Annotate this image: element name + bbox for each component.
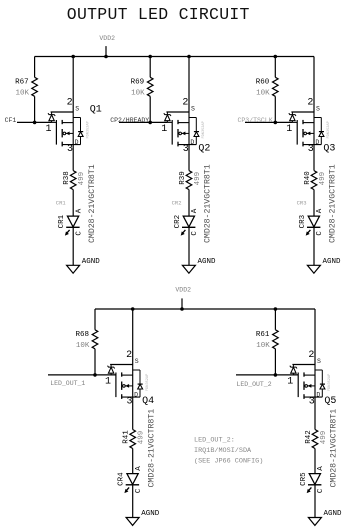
- wire: [48, 374, 116, 376]
- svg-text:R41: R41: [123, 430, 131, 444]
- transistor Q1: [48, 112, 83, 146]
- svg-text:D: D: [315, 139, 319, 146]
- svg-text:Q1: Q1: [90, 105, 102, 116]
- svg-text:R42: R42: [305, 430, 313, 444]
- svg-text:FDN352AP: FDN352AP: [86, 121, 90, 138]
- svg-text:R38: R38: [63, 171, 71, 185]
- svg-text:C: C: [317, 488, 325, 493]
- svg-text:CR2: CR2: [174, 215, 182, 229]
- svg-text:(SEE JP66 CONFIG): (SEE JP66 CONFIG): [194, 458, 263, 466]
- svg-text:VDD2: VDD2: [175, 286, 191, 293]
- svg-text:OUTPUT LED CIRCUIT: OUTPUT LED CIRCUIT: [67, 5, 250, 24]
- wire: [313, 227, 315, 265]
- wire: [72, 145, 74, 171]
- transistor Q5: [290, 365, 325, 399]
- svg-text:CR1: CR1: [56, 200, 67, 207]
- svg-text:Q2: Q2: [198, 143, 210, 154]
- svg-text:499: 499: [319, 172, 327, 186]
- wire: [72, 227, 74, 265]
- wire VDD2 rail (top): [35, 56, 314, 58]
- svg-text:499: 499: [320, 431, 328, 445]
- wire: [149, 96, 151, 122]
- resistor R39: [186, 171, 192, 190]
- svg-text:CP2/HREADY: CP2/HREADY: [110, 117, 149, 124]
- resistor R38: [70, 171, 76, 190]
- wire: [132, 397, 134, 429]
- resistor R60: [272, 77, 278, 96]
- svg-text:3: 3: [309, 397, 315, 408]
- wire: [274, 309, 276, 330]
- svg-text:S: S: [135, 358, 139, 365]
- svg-text:FDN352AP: FDN352AP: [146, 374, 150, 391]
- junction: [274, 307, 278, 311]
- junction: [104, 55, 108, 59]
- wire: [132, 309, 134, 365]
- svg-text:1: 1: [45, 124, 51, 135]
- svg-text:S: S: [317, 358, 321, 365]
- wire: [236, 374, 298, 376]
- svg-text:R39: R39: [179, 171, 187, 185]
- junction: [187, 55, 191, 59]
- resistor R40: [311, 171, 317, 190]
- svg-text:499: 499: [78, 172, 86, 186]
- wire: [188, 190, 190, 217]
- transistor Q2: [164, 112, 199, 146]
- resistor R69: [147, 77, 153, 96]
- svg-text:S: S: [191, 105, 195, 112]
- svg-text:1: 1: [161, 124, 167, 135]
- svg-text:R68: R68: [75, 331, 89, 339]
- ground AGND: [308, 510, 342, 525]
- svg-text:Q4: Q4: [142, 396, 154, 407]
- svg-text:AGND: AGND: [323, 258, 342, 266]
- svg-text:LED_OUT_1: LED_OUT_1: [50, 380, 85, 387]
- wire: [119, 121, 167, 123]
- ground AGND: [67, 258, 101, 273]
- svg-text:3: 3: [126, 397, 132, 408]
- svg-text:1: 1: [286, 124, 292, 135]
- svg-text:R67: R67: [15, 79, 29, 87]
- transistor Q3: [289, 112, 324, 146]
- wire: [188, 145, 190, 171]
- svg-text:CMD28-21VGCTR8T1: CMD28-21VGCTR8T1: [329, 164, 338, 243]
- svg-text:CMD28-21VGCTR8T1: CMD28-21VGCTR8T1: [88, 164, 97, 243]
- svg-text:CR1: CR1: [58, 214, 66, 228]
- junction: [148, 121, 152, 125]
- svg-text:2: 2: [308, 350, 314, 361]
- svg-text:CMD28-21VGCTR8T1: CMD28-21VGCTR8T1: [330, 409, 339, 488]
- wire: [274, 96, 276, 122]
- junction: [274, 121, 278, 125]
- wire: [132, 485, 134, 518]
- svg-text:3: 3: [183, 144, 189, 155]
- svg-text:CR3: CR3: [299, 214, 307, 228]
- svg-text:R61: R61: [256, 331, 270, 339]
- svg-text:R60: R60: [256, 79, 270, 87]
- svg-text:A: A: [75, 208, 83, 213]
- wire: [314, 485, 316, 518]
- svg-text:3: 3: [67, 144, 73, 155]
- resistor R68: [92, 330, 98, 349]
- svg-text:FDN352AP: FDN352AP: [327, 121, 331, 138]
- svg-text:D: D: [190, 139, 194, 146]
- svg-text:A: A: [191, 208, 199, 213]
- svg-text:3: 3: [308, 144, 314, 155]
- transistor Q4: [108, 365, 143, 399]
- wire: [34, 96, 36, 122]
- junction: [71, 55, 75, 59]
- wire: [17, 121, 52, 123]
- svg-text:CF1: CF1: [5, 117, 17, 124]
- wire: [314, 309, 316, 365]
- svg-text:CP3/TSCLK: CP3/TSCLK: [238, 117, 273, 124]
- svg-text:2: 2: [67, 98, 73, 109]
- svg-text:10K: 10K: [76, 342, 90, 350]
- svg-text:CR2: CR2: [172, 200, 182, 207]
- svg-text:C: C: [316, 231, 324, 236]
- svg-text:CMD28-21VGCTR8T1: CMD28-21VGCTR8T1: [147, 409, 156, 488]
- svg-text:1: 1: [287, 376, 293, 387]
- svg-text:IRQ1B/MOSI/SDA: IRQ1B/MOSI/SDA: [194, 447, 252, 455]
- junction: [180, 307, 184, 311]
- LED CR4: [124, 474, 139, 494]
- svg-text:D: D: [316, 392, 320, 399]
- wire: [314, 397, 316, 429]
- svg-text:1: 1: [105, 376, 111, 387]
- svg-text:FDN352AP: FDN352AP: [202, 121, 206, 138]
- LED CR5: [307, 474, 322, 494]
- svg-text:CR4: CR4: [118, 472, 126, 486]
- svg-text:AGND: AGND: [141, 510, 160, 518]
- svg-text:AGND: AGND: [324, 510, 343, 518]
- svg-text:D: D: [134, 392, 138, 399]
- svg-text:C: C: [135, 488, 143, 493]
- junction: [148, 55, 152, 59]
- svg-text:499: 499: [138, 431, 146, 445]
- svg-text:10K: 10K: [256, 342, 270, 350]
- junction: [131, 307, 135, 311]
- wire: [245, 121, 292, 123]
- svg-text:S: S: [316, 105, 320, 112]
- svg-text:C: C: [75, 231, 83, 236]
- svg-text:10K: 10K: [256, 90, 270, 98]
- LED CR1: [65, 216, 80, 236]
- ground AGND: [126, 510, 160, 525]
- wire: [72, 57, 74, 113]
- junction: [274, 55, 278, 59]
- note LED_OUT_2 config: [194, 437, 263, 466]
- LED CR3: [306, 216, 321, 236]
- wire: [313, 190, 315, 217]
- wire: [149, 57, 151, 78]
- svg-text:499: 499: [194, 172, 202, 186]
- wire: [313, 145, 315, 171]
- svg-text:FDN352AP: FDN352AP: [328, 374, 332, 391]
- svg-text:LED_OUT_2:: LED_OUT_2:: [194, 437, 235, 445]
- svg-text:AGND: AGND: [198, 258, 217, 266]
- svg-text:A: A: [316, 208, 324, 213]
- svg-text:2: 2: [126, 350, 132, 361]
- junction: [274, 373, 278, 377]
- svg-text:2: 2: [307, 98, 313, 109]
- svg-text:Q5: Q5: [324, 396, 336, 407]
- wire: [94, 309, 96, 330]
- svg-text:S: S: [75, 105, 79, 112]
- ground AGND: [307, 258, 341, 273]
- junction: [33, 121, 37, 125]
- wire: [188, 57, 190, 113]
- resistor R67: [32, 77, 38, 96]
- svg-text:CR3: CR3: [297, 200, 307, 207]
- LED CR2: [181, 216, 196, 236]
- wire: [94, 349, 96, 375]
- svg-text:CMD28-21VGCTR8T1: CMD28-21VGCTR8T1: [204, 164, 213, 243]
- wire: [274, 57, 276, 78]
- svg-text:10K: 10K: [15, 90, 29, 98]
- wire: [313, 57, 315, 113]
- svg-text:R40: R40: [304, 171, 312, 185]
- resistor R41: [130, 430, 136, 449]
- wire: [274, 349, 276, 375]
- svg-text:10K: 10K: [131, 90, 145, 98]
- wire: [314, 449, 316, 474]
- resistor R61: [273, 330, 279, 349]
- resistor R42: [312, 430, 318, 449]
- wire: [72, 190, 74, 217]
- svg-text:AGND: AGND: [82, 258, 101, 266]
- svg-text:R69: R69: [131, 79, 145, 87]
- wire: [188, 227, 190, 265]
- svg-text:LED_OUT_2: LED_OUT_2: [237, 381, 272, 388]
- wire: [34, 57, 36, 78]
- svg-text:VDD2: VDD2: [99, 35, 115, 42]
- wire (VDD2 stem): [105, 46, 107, 56]
- junction: [93, 373, 97, 377]
- svg-text:Q3: Q3: [323, 143, 335, 154]
- svg-text:D: D: [75, 139, 79, 146]
- svg-text:2: 2: [182, 98, 188, 109]
- wire (VDD2 stem): [181, 298, 183, 309]
- svg-text:A: A: [317, 466, 325, 471]
- svg-text:CR5: CR5: [300, 472, 308, 486]
- wire VDD2 rail (bottom): [95, 308, 315, 310]
- ground AGND: [182, 258, 216, 273]
- svg-text:C: C: [191, 231, 199, 236]
- svg-text:A: A: [135, 466, 143, 471]
- wire: [132, 449, 134, 474]
